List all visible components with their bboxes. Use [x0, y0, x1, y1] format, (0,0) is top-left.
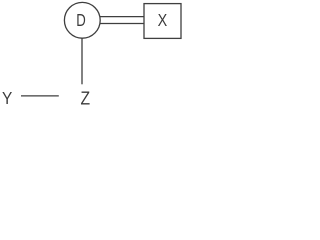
- svg-text:X: X: [158, 10, 168, 30]
- svg-text:Z: Z: [81, 89, 91, 109]
- node X (box): [144, 4, 181, 39]
- svg-text:Y: Y: [2, 88, 12, 108]
- double edge D to X, bottom line: [100, 23, 144, 25]
- wire Y to Z: [21, 95, 59, 97]
- double edge D to X, top line: [100, 16, 144, 18]
- node D (circle): [64, 2, 100, 38]
- svg-text:D: D: [76, 10, 86, 30]
- wire from D down toward Z: [81, 38, 83, 84]
